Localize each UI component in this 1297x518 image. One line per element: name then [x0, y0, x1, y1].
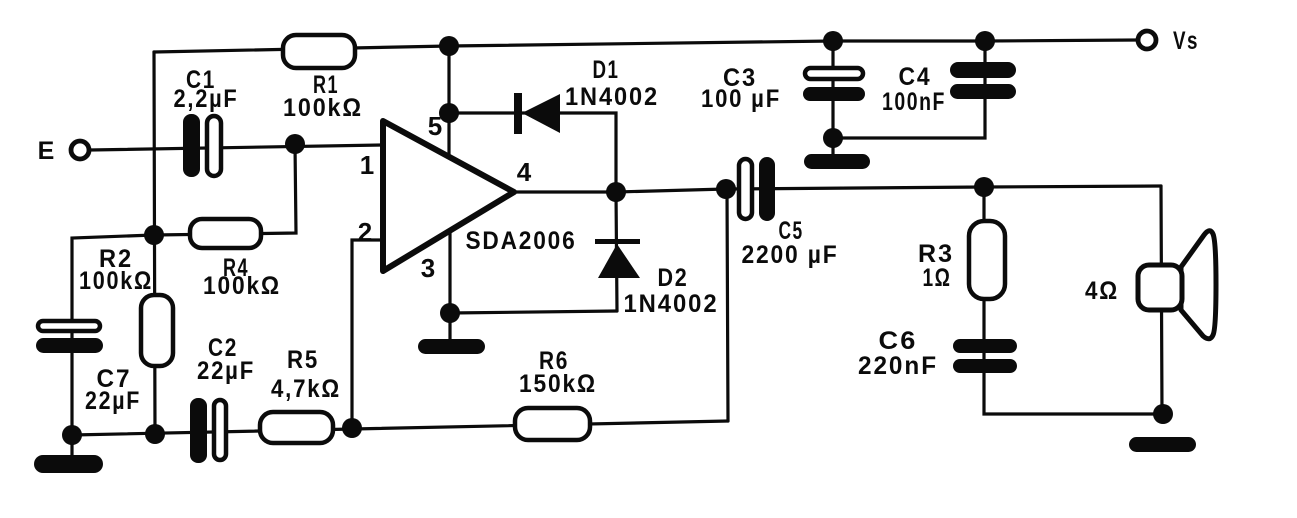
- svg-text:Vs: Vs: [1173, 27, 1199, 55]
- svg-text:C6: C6: [879, 327, 918, 355]
- svg-text:D1: D1: [593, 56, 620, 84]
- svg-text:R5: R5: [287, 346, 319, 374]
- svg-text:100nF: 100nF: [882, 88, 946, 116]
- svg-text:1Ω: 1Ω: [923, 264, 952, 292]
- svg-text:D2: D2: [658, 264, 689, 292]
- svg-text:100kΩ: 100kΩ: [283, 94, 363, 122]
- svg-text:4,7kΩ: 4,7kΩ: [271, 375, 341, 403]
- svg-text:100 µF: 100 µF: [701, 85, 781, 113]
- svg-text:C4: C4: [899, 63, 932, 91]
- svg-text:1N4002: 1N4002: [624, 290, 719, 318]
- svg-text:SDA2006: SDA2006: [466, 227, 577, 255]
- svg-text:2: 2: [358, 217, 372, 247]
- svg-text:2,2µF: 2,2µF: [174, 85, 239, 113]
- svg-text:1N4002: 1N4002: [565, 83, 659, 111]
- svg-text:4Ω: 4Ω: [1085, 277, 1119, 305]
- svg-text:3: 3: [421, 253, 435, 283]
- svg-text:5: 5: [428, 111, 442, 141]
- svg-text:220nF: 220nF: [858, 352, 938, 380]
- svg-text:22µF: 22µF: [85, 387, 141, 415]
- svg-text:E: E: [38, 137, 57, 165]
- svg-text:4: 4: [517, 157, 532, 187]
- svg-text:100kΩ: 100kΩ: [79, 267, 153, 295]
- svg-text:150kΩ: 150kΩ: [519, 370, 597, 398]
- svg-text:100kΩ: 100kΩ: [203, 272, 281, 300]
- svg-text:22µF: 22µF: [197, 357, 255, 385]
- svg-text:2200 µF: 2200 µF: [742, 241, 839, 269]
- svg-text:1: 1: [360, 150, 374, 180]
